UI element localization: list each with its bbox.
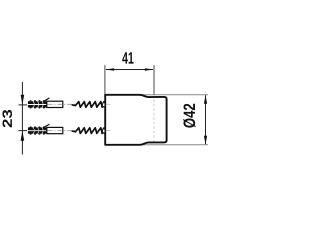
dimension 23: bottom arrowhead (outside, pointing up) (21, 131, 25, 141)
notch on body left edge, bottom screw hole (103, 129, 105, 133)
dimension 41: dimension line (106, 69, 153, 71)
dimension Ø42: dimension line (205, 95, 207, 144)
body outline (wall bracket, side view) (105, 95, 166, 145)
dimension 23: dimension line (21, 82, 23, 155)
wire: 41 left extension line (104, 65, 106, 94)
dimension Ø42: top arrowhead (204, 95, 207, 104)
wall plug bottom: ribbed section (28, 126, 47, 134)
notch on body left edge, top screw hole (103, 103, 105, 107)
dimension 23: bottom extension tick (19, 130, 28, 132)
wall plug bottom: wing (44, 124, 50, 127)
dimension 23: label (2, 110, 12, 128)
screw top: thread (72, 102, 105, 108)
dimension 41: left arrowhead (105, 68, 114, 71)
screw bottom: shank end (101, 127, 105, 134)
dimension 23: top arrowhead (outside, pointing down) (21, 95, 25, 105)
wire: dashed centre line through body (153, 95, 155, 145)
wire: extension line bottom (Ø42) (141, 144, 208, 146)
wall plug top: wing (44, 98, 50, 101)
wall plug bottom: sleeve (47, 127, 63, 133)
dimension 41: label (122, 52, 133, 63)
dimension Ø42: label (183, 104, 195, 128)
screw top: shank end (101, 101, 105, 108)
dimension 23: top extension tick (19, 104, 28, 106)
dimension Ø42: bottom arrowhead (204, 136, 207, 145)
wall plug top: centre line (48, 103, 76, 105)
wire: extension line top (Ø42) (141, 94, 208, 96)
hole hint line top (106, 103, 111, 105)
wall plug top: sleeve (47, 101, 63, 107)
wall plug top: ribbed section (28, 100, 47, 108)
dimension 41: right arrowhead (145, 68, 154, 71)
wire: 41 right extension line (153, 65, 155, 94)
wall plug bottom: centre line (48, 130, 76, 132)
screw bottom: thread (72, 128, 105, 134)
hole hint line bottom (106, 130, 111, 132)
